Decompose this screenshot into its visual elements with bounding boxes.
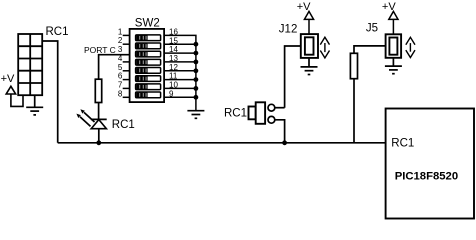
svg-text:2: 2	[118, 36, 123, 45]
DIP switch SW2 body	[130, 29, 165, 102]
junction node (LED / bus)	[96, 140, 101, 145]
svg-text:PORT C: PORT C	[84, 45, 116, 55]
svg-text:16: 16	[169, 28, 178, 37]
junction dots on SW2 right bus	[194, 42, 199, 100]
SW2 left pin numbers 1-8	[118, 27, 123, 98]
IC U1 PIC18F8520 body	[386, 109, 474, 219]
svg-text:PIC18F8520: PIC18F8520	[395, 170, 458, 182]
svg-text:3: 3	[118, 45, 123, 54]
svg-text:14: 14	[169, 45, 178, 54]
svg-text:6: 6	[118, 72, 123, 81]
push button RC1 (actuator + bar + two contacts)	[249, 102, 266, 124]
ground (below J5)	[385, 58, 402, 74]
svg-text:5: 5	[118, 63, 123, 72]
wire J12 to push button top contact	[285, 46, 301, 108]
SW2 right pin numbers 16-9	[169, 28, 178, 99]
svg-text:4: 4	[118, 54, 123, 63]
jumper J12 (nested rectangles)	[301, 34, 318, 58]
+V supply symbol (left)	[6, 86, 23, 106]
wire push button bottom contact to bus	[275, 120, 285, 143]
svg-text:RC1: RC1	[224, 108, 247, 120]
svg-text:J12: J12	[279, 24, 298, 36]
svg-text:RC1: RC1	[391, 137, 414, 149]
double arrow (J5 jumper action)	[406, 37, 415, 57]
svg-text:RC1: RC1	[112, 119, 135, 131]
wire resistor to LED	[98, 103, 100, 120]
main bus wire (net RC1)	[58, 142, 386, 144]
resistor network RC1 (top-left 2x5 box array)	[18, 34, 42, 95]
svg-text:9: 9	[169, 89, 174, 98]
svg-text:8: 8	[118, 89, 123, 98]
SW2 left pin stubs 1,2,4,5,6,7,8	[123, 35, 130, 97]
+V arrow (J5)	[389, 11, 398, 34]
svg-text:12: 12	[169, 63, 178, 72]
junction node (button / bus)	[282, 140, 287, 145]
svg-text:7: 7	[118, 80, 123, 89]
wire LED to bus	[98, 129, 100, 143]
svg-text:13: 13	[169, 54, 178, 63]
svg-text:SW2: SW2	[135, 18, 160, 30]
double arrow (J12 jumper action)	[320, 37, 329, 58]
wire J5 to resistor	[354, 46, 386, 53]
wire from resistor network pin to bus	[42, 41, 58, 143]
resistor (PORT C pull, vertical box)	[95, 79, 101, 102]
svg-text:+V: +V	[1, 73, 15, 85]
SW2 right pin 16 stub + bus down to ground	[164, 35, 196, 110]
svg-text:15: 15	[169, 36, 178, 45]
LED RC1 (cathode bar on top, triangle below, emission arrows)	[80, 112, 107, 128]
ground (below SW2 bus)	[187, 111, 204, 119]
ground (below J12)	[301, 58, 318, 75]
ground (below resistor network)	[26, 95, 43, 115]
resistor (J5 pull, vertical box)	[350, 53, 357, 78]
wire push button top contact	[275, 107, 285, 109]
svg-text:11: 11	[169, 72, 178, 81]
svg-text:RC1: RC1	[46, 26, 69, 38]
+V arrow (J12)	[304, 11, 313, 34]
svg-text:J5: J5	[366, 23, 378, 35]
wire resistor to bus	[353, 79, 355, 143]
wire PORT C: SW2 pin 3 to resistor	[99, 55, 130, 79]
SW2 switch elements (8 sliders)	[136, 35, 161, 98]
svg-text:1: 1	[118, 27, 123, 36]
jumper J5 (nested rectangles)	[386, 34, 402, 58]
svg-text:10: 10	[169, 81, 178, 90]
SW2 right pin stubs 15-9	[164, 44, 196, 97]
